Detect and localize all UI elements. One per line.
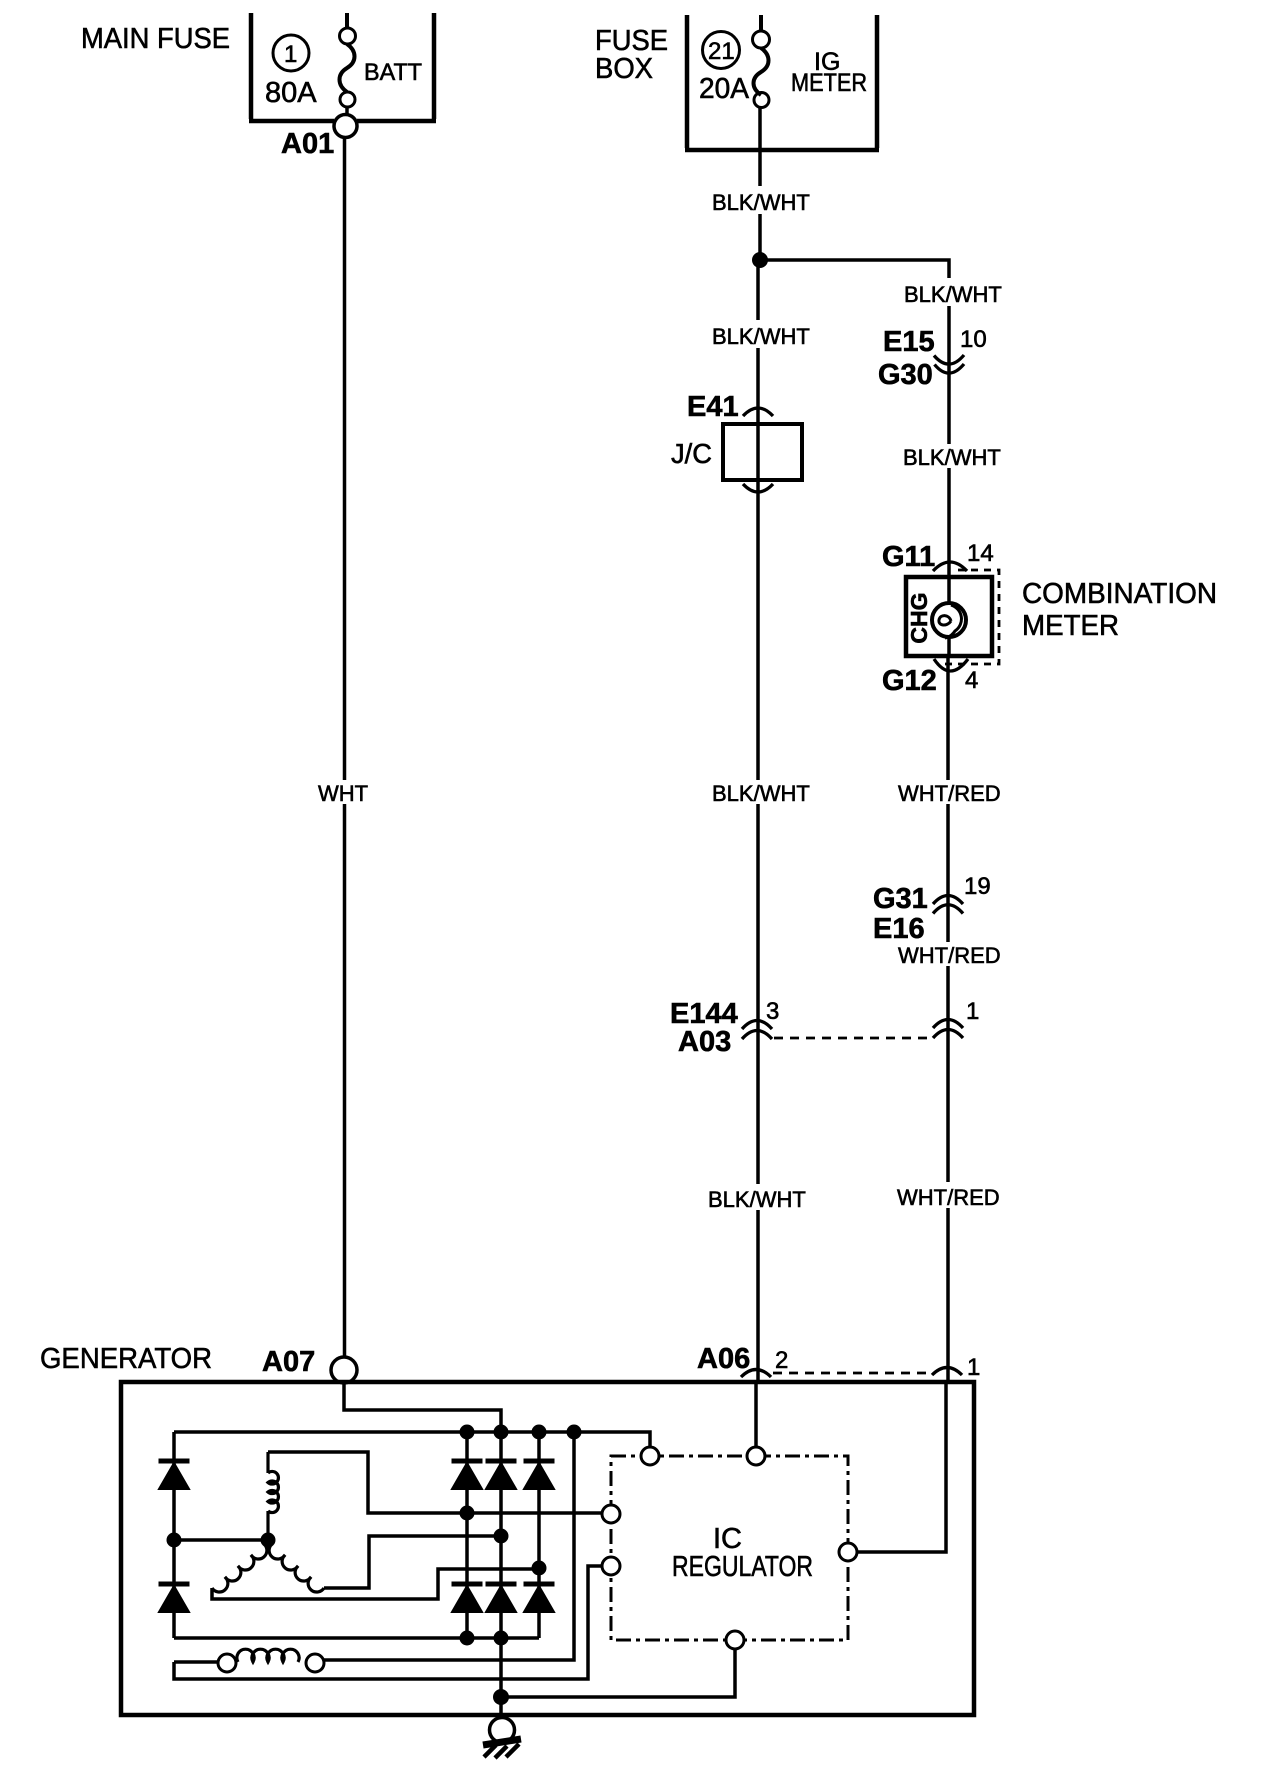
wire regulator B sense — [857, 1382, 946, 1552]
main fuse box outline — [249, 13, 436, 121]
svg-text:WHT/RED: WHT/RED — [898, 781, 1001, 806]
svg-text:E16: E16 — [873, 913, 925, 945]
svg-text:CHG: CHG — [906, 592, 932, 643]
svg-text:COMBINATION: COMBINATION — [1022, 578, 1217, 610]
node dot bus col2 — [494, 1425, 509, 1440]
regulator terminal T1 — [641, 1447, 659, 1465]
ground symbol hatches — [484, 1744, 519, 1758]
svg-text:BOX: BOX — [595, 53, 653, 85]
stator coil phase C left — [212, 1540, 268, 1592]
junction node dot — [752, 252, 768, 268]
svg-text:2: 2 — [775, 1347, 788, 1374]
charge indicator lamp — [932, 603, 966, 637]
node dot stator center — [261, 1533, 276, 1548]
wire rectifier bottom bus — [174, 1636, 539, 1640]
svg-text:BLK/WHT: BLK/WHT — [904, 282, 1002, 307]
regulator terminal T3 — [602, 1505, 620, 1523]
regulator terminal T6 — [726, 1631, 744, 1649]
fuse F1 top terminal — [340, 28, 356, 44]
connector E41 chevron top — [743, 408, 773, 416]
node dot mid col2 — [494, 1529, 509, 1544]
svg-text:A06: A06 — [697, 1343, 750, 1375]
svg-text:10: 10 — [960, 326, 987, 353]
svg-text:BLK/WHT: BLK/WHT — [708, 1187, 806, 1212]
diode D4 top col2 — [486, 1461, 517, 1489]
node dot bus col1 — [460, 1425, 475, 1440]
fuse F1 bottom terminal — [340, 92, 355, 107]
svg-text:1: 1 — [967, 1354, 980, 1381]
wire diode column 2 — [499, 1432, 503, 1638]
svg-text:WHT/RED: WHT/RED — [898, 943, 1001, 968]
connector dashed link E144/A03 — [774, 1037, 931, 1040]
svg-text:METER: METER — [791, 69, 867, 97]
svg-text:3: 3 — [766, 998, 779, 1025]
brush terminal left — [218, 1654, 236, 1672]
brush terminal right — [306, 1654, 324, 1672]
svg-text:19: 19 — [964, 873, 991, 900]
wire WHT A01 to A07 — [343, 137, 347, 1357]
svg-text:E15: E15 — [883, 326, 935, 358]
svg-text:1: 1 — [284, 41, 297, 68]
connector G12 chevron — [934, 659, 968, 671]
wire diode column 3 — [537, 1432, 541, 1638]
connector G11 chevron — [933, 562, 967, 571]
node dot ground — [493, 1689, 509, 1705]
svg-text:G12: G12 — [882, 665, 937, 697]
wire column 4 B+ to field — [324, 1432, 574, 1660]
wire rectifier top bus — [174, 1432, 650, 1448]
svg-text:G30: G30 — [878, 359, 933, 391]
wire phase C to column 3 — [212, 1569, 539, 1599]
connector A07 circle — [331, 1357, 357, 1383]
label BLK/WHT 1 — [708, 186, 810, 215]
lamp filament — [939, 605, 962, 638]
wire BLK/WHT fuse box to junction — [758, 108, 762, 260]
fuse box outline — [685, 15, 879, 150]
stator coil phase A vertical — [268, 1452, 278, 1540]
svg-text:BLK/WHT: BLK/WHT — [712, 190, 810, 215]
main fuse number circle 1 — [273, 35, 309, 71]
label WHT — [314, 780, 376, 806]
fuse box number circle 21 — [703, 32, 740, 69]
connector A06 chevron right — [932, 1368, 962, 1376]
wire inside meter — [947, 577, 951, 656]
rotor field coil — [237, 1649, 299, 1662]
label BLK/WHT right 2 — [900, 444, 1002, 470]
wire ground column — [499, 1638, 503, 1717]
svg-text:14: 14 — [967, 540, 994, 567]
generator box — [121, 1382, 974, 1715]
svg-text:WHT/RED: WHT/RED — [897, 1185, 1000, 1210]
wire WHT/RED meter to generator — [946, 656, 950, 1382]
wire left diode column — [172, 1432, 176, 1638]
connector dashed link A06 — [773, 1372, 930, 1375]
connector A01 — [334, 115, 357, 138]
svg-text:1: 1 — [966, 998, 979, 1025]
svg-text:BLK/WHT: BLK/WHT — [712, 324, 810, 349]
wire fuse to A01 — [345, 107, 349, 115]
IC regulator dashed box — [611, 1456, 848, 1640]
diode D1 left top — [159, 1461, 190, 1489]
svg-text:GENERATOR: GENERATOR — [40, 1343, 212, 1375]
svg-text:A01: A01 — [281, 128, 334, 160]
fuse F21 top terminal — [753, 31, 770, 48]
node dot bus col3 — [532, 1425, 547, 1440]
combination meter box — [906, 577, 992, 656]
connector E15/G30 chevrons — [934, 355, 964, 373]
svg-text:BLK/WHT: BLK/WHT — [712, 781, 810, 806]
svg-text:E41: E41 — [687, 391, 739, 423]
svg-text:21: 21 — [708, 38, 735, 65]
svg-text:REGULATOR: REGULATOR — [672, 1551, 813, 1583]
connector E144/A03 chevron right — [933, 1020, 963, 1039]
wire field line left — [174, 1660, 218, 1664]
svg-text:20A: 20A — [699, 73, 750, 105]
svg-text:4: 4 — [965, 667, 978, 694]
fuse F21 bottom terminal — [754, 93, 769, 108]
label BLK/WHT 4 — [704, 1184, 808, 1212]
connector G31/E16 chevrons — [933, 896, 963, 914]
svg-text:80A: 80A — [265, 77, 317, 109]
stator coil phase B right — [268, 1540, 324, 1592]
fuse F21 element — [754, 15, 769, 95]
regulator terminal T2 — [747, 1447, 765, 1465]
junction block J/C box E41 — [723, 424, 802, 480]
ground symbol circle — [490, 1718, 515, 1743]
node dot mid col3 — [532, 1561, 547, 1576]
node dot mid col1 — [460, 1506, 475, 1521]
connector A06 chevron left — [741, 1370, 771, 1378]
wire phase A to column 1 — [268, 1452, 602, 1513]
wire A07 to rectifier bus — [344, 1383, 501, 1432]
node dot left diode mid — [167, 1533, 182, 1548]
label BLK/WHT 2 — [708, 320, 810, 349]
svg-text:J/C: J/C — [671, 438, 712, 469]
svg-text:A07: A07 — [262, 1346, 315, 1378]
diode D5 top col3 — [524, 1461, 555, 1489]
svg-text:A03: A03 — [678, 1026, 731, 1058]
combination meter dashed outline — [938, 570, 999, 664]
wire phase B to column 2 — [324, 1536, 501, 1588]
fuse F1 element — [340, 13, 355, 92]
svg-text:BLK/WHT: BLK/WHT — [903, 445, 1001, 470]
regulator terminal T4 — [602, 1557, 620, 1575]
label BLK/WHT 3 — [708, 780, 810, 806]
connector E41 chevron bottom — [743, 484, 773, 492]
wire branch junction to right wire — [758, 260, 949, 577]
label WHT/RED 2 — [894, 942, 1004, 968]
svg-text:METER: METER — [1022, 610, 1119, 642]
label WHT/RED 3 — [893, 1182, 1003, 1210]
wire ground to regulator — [501, 1649, 735, 1697]
node dot bottom col1 — [460, 1631, 475, 1646]
diode D7 bottom col2 — [486, 1584, 517, 1612]
regulator terminal T5 — [839, 1543, 857, 1561]
svg-text:G11: G11 — [882, 541, 935, 573]
svg-text:BATT: BATT — [364, 59, 422, 86]
diode D6 bottom col1 — [452, 1584, 483, 1612]
svg-text:G31: G31 — [873, 883, 928, 915]
wire field return to regulator — [174, 1566, 602, 1679]
diode D3 top col1 — [452, 1461, 483, 1489]
wire diode column 1 — [465, 1432, 469, 1638]
label BLK/WHT right branch — [900, 278, 1002, 307]
wire BLK/WHT junction down to generator — [756, 260, 760, 1382]
diode D2 left bottom — [159, 1584, 190, 1612]
label WHT/RED 1 — [894, 780, 1004, 806]
diode D8 bottom col3 — [524, 1584, 555, 1612]
wire neutral to left diodes — [174, 1538, 268, 1542]
wire A06 to regulator — [754, 1382, 758, 1447]
node dot bus col4 — [567, 1425, 582, 1440]
ground symbol bar — [483, 1739, 521, 1745]
connector E144/A03 chevron left — [742, 1021, 772, 1040]
svg-text:WHT: WHT — [318, 781, 368, 806]
svg-text:MAIN FUSE: MAIN FUSE — [81, 23, 230, 55]
node dot bottom col2 — [494, 1631, 509, 1646]
